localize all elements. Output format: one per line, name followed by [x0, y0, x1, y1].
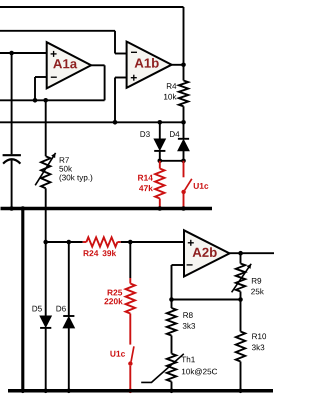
node R8/Th1 to ground rail [169, 389, 174, 394]
diode D3 [154, 139, 165, 150]
wire second top line (to A1b inverting input) [0, 30, 115, 32]
label R8 [183, 312, 192, 318]
label U1c (top) [194, 183, 209, 189]
node junction R8 top [169, 297, 174, 302]
wire D4 top lead [183, 122, 185, 139]
op-amp A1a [47, 42, 91, 88]
wire A2b - input stub [172, 264, 185, 266]
label R25 [108, 290, 123, 296]
node A1b output junction [181, 63, 186, 68]
wire stub into A1b - input [115, 53, 127, 55]
op-amp A1b [127, 42, 172, 88]
wire R25 top lead (black) [129, 242, 131, 278]
diode D6 [63, 315, 74, 317]
wire D6 bottom to ground rail [68, 328, 70, 391]
label D3 [141, 131, 150, 137]
resistor R24 (red) [83, 241, 87, 243]
wire A1b + input stub [115, 77, 127, 79]
node U1c to rail [181, 206, 186, 211]
wire R24 to A2b + input [121, 241, 184, 243]
wire D6 branch down [68, 242, 70, 316]
resistor R8 [171, 300, 173, 309]
wire A2b output [230, 252, 275, 254]
wire A1a output [91, 64, 105, 66]
resistor R14 (red) [159, 161, 161, 169]
wire D5 branch down [45, 242, 47, 316]
wire corner down to A1b - input [114, 31, 116, 54]
node R10 to ground rail [238, 389, 243, 394]
node cap to rail [9, 206, 14, 211]
node junction R24 line left [43, 240, 48, 245]
label 220k of R25 [104, 298, 122, 304]
resistor R25 (red) [129, 278, 131, 284]
label R10 [252, 333, 266, 339]
node R14 to rail [158, 206, 163, 211]
label 3k3 of R10 [252, 344, 264, 350]
wire R24 input line [46, 241, 83, 243]
label 3k3 of R8 [183, 323, 195, 329]
thick bus wire down left side [21, 209, 24, 391]
wire D3 top lead [159, 122, 161, 139]
node junction D4 bottom [181, 159, 186, 164]
capacitor C bottom lead [11, 160, 13, 208]
wire A1a - input down to feedback line [34, 77, 36, 100]
node junction R25 branch [128, 240, 133, 245]
wire A1b output to junction [172, 64, 184, 66]
label 39k of R24 [102, 250, 116, 256]
node junction R4 bottom / D4 top [181, 120, 186, 125]
node junction A1a - feedback [33, 98, 38, 103]
label D6 [57, 306, 66, 312]
label (30k typ.) of R7 [60, 174, 93, 182]
label U1c (bottom) [110, 351, 125, 357]
node junction R9 bottom / R10 top [238, 297, 243, 302]
capacitor C (top lead) [11, 52, 13, 154]
node junction A1b + on lower line [113, 120, 118, 125]
potentiometer R9 [240, 253, 242, 263]
wire A2b - input down to feedback node [171, 265, 173, 300]
label R4 [167, 83, 176, 89]
label 25k of R9 [251, 288, 264, 294]
node junction D3 bottom [158, 159, 163, 164]
wire A1a output down to feedback line [104, 65, 106, 100]
wire from rail down to R24 line [45, 209, 47, 243]
wire D4 bottom lead [183, 151, 185, 161]
switch U1c (top, red) [183, 161, 185, 178]
wire D5 bottom to ground rail [45, 328, 47, 391]
wire A1a - input stub [35, 76, 47, 78]
label R7 [60, 157, 69, 163]
node D5 to ground rail [43, 389, 48, 394]
wire vertical from top line down to A1b output [183, 7, 185, 65]
node junction D3 top [158, 120, 163, 125]
resistor R10 [240, 300, 242, 332]
label 47k of R14 [139, 185, 153, 191]
node D6 to ground rail [67, 389, 72, 394]
node junction D6 branch [67, 240, 72, 245]
diode D5 [40, 316, 51, 327]
label 10k@25C of Th1 [182, 368, 217, 375]
wire A2b feedback line [172, 299, 241, 301]
label R9 [252, 278, 261, 284]
node A2b output junction [238, 251, 243, 256]
node junction to R7 branch [43, 98, 48, 103]
node thick bus to rail [21, 206, 26, 211]
node U1c to ground rail (red) [128, 389, 133, 394]
node junction on A1a + input line [9, 51, 14, 56]
label 10k of R4 [164, 94, 177, 100]
wire linking D3 and D4 bottoms [160, 160, 184, 162]
wire A1a feedback line [0, 99, 105, 101]
switch U1c (bottom, red) [129, 314, 131, 345]
label R14 [138, 175, 153, 181]
wire lower horizontal line (A1b + net) [0, 121, 184, 123]
potentiometer R7 [41, 156, 50, 188]
diode D4 [178, 138, 189, 140]
wire R7 bottom to rail [45, 188, 47, 208]
thermistor Th1 [167, 354, 176, 382]
wire R7 branch from feedback line [45, 100, 47, 156]
wire top feedback line of A1b (net to A1b output) [0, 6, 184, 8]
label R24 [84, 250, 99, 256]
op-amp A2b [184, 230, 230, 276]
capacitor C plates [3, 154, 21, 156]
wire A1b + input down to lower line [114, 78, 116, 123]
label D5 [33, 306, 42, 312]
ground rail at bottom [8, 389, 273, 393]
node bus to ground rail [21, 389, 26, 394]
label D4 [170, 131, 179, 137]
wire D3 bottom lead [159, 151, 161, 160]
resistor R4 [183, 65, 185, 81]
mid supply rail [1, 207, 213, 211]
label Th1 [182, 356, 195, 362]
label 50k of R7 [59, 166, 72, 172]
wire input line to A1a + input [0, 52, 47, 54]
